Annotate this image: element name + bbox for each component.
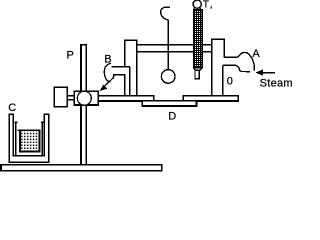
steam inlet tube lower line	[223, 65, 250, 72]
drip tray D	[142, 101, 196, 106]
svg-text:B: B	[104, 54, 111, 66]
thermometer T1	[193, 0, 201, 8]
chamber left wall interior	[125, 41, 135, 95]
beaker rim caps	[9, 113, 50, 115]
clamp counterweight box	[54, 87, 67, 106]
suspension hook and wire	[161, 7, 170, 70]
cup rim caps	[15, 121, 44, 123]
left shelf	[98, 96, 153, 101]
B pointer curve	[104, 63, 110, 81]
clamp boss body	[74, 91, 98, 105]
chamber right wall interior	[213, 40, 224, 95]
stand pole P	[81, 45, 86, 166]
right shelf	[183, 96, 238, 101]
chamber left wall upper part and spout top	[111, 40, 136, 95]
steam arrow	[255, 69, 263, 76]
suspended ball	[161, 70, 175, 84]
svg-text:T: T	[203, 0, 209, 11]
B arrowhead	[100, 85, 108, 91]
svg-text:C: C	[8, 102, 16, 114]
svg-text:Steam: Steam	[260, 77, 293, 89]
clamp jaw lines	[67, 96, 74, 100]
steam inlet tube upper line	[224, 52, 254, 70]
chamber lid (double line)	[136, 45, 212, 52]
bench base	[1, 165, 162, 171]
calorimeter cup	[16, 123, 43, 156]
water surface line	[17, 129, 40, 131]
svg-text:0: 0	[227, 76, 233, 88]
svg-text:D: D	[168, 110, 176, 122]
chamber left wall lower edge and outlet spout bottom	[113, 75, 124, 96]
beaker jacket outer wall	[9, 114, 48, 162]
svg-text:A: A	[252, 48, 260, 60]
svg-text:,: ,	[210, 0, 213, 10]
water with stipple	[20, 131, 40, 152]
svg-text:P: P	[67, 50, 74, 62]
clamp knob circle	[77, 91, 91, 105]
chamber right wall outline	[212, 39, 224, 95]
B arrow shaft	[103, 77, 114, 87]
beaker jacket inner wall	[13, 114, 44, 155]
